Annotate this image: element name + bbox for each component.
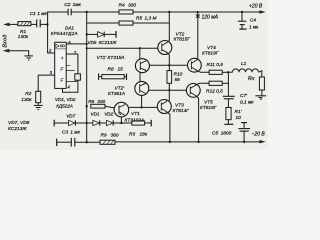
wire node N to R3' — [121, 122, 131, 124]
wire bus to VT2 base — [87, 47, 159, 49]
bottom rail wire — [115, 141, 260, 143]
node K junction — [140, 106, 142, 108]
node L junction (bus to R6) — [86, 105, 88, 107]
resistor R5 — [119, 21, 133, 25]
svg-text:L1: L1 — [241, 61, 247, 67]
wire VT4 collector up — [196, 12, 199, 60]
wire node S down to C7' — [227, 72, 229, 96]
resistor R12 — [209, 81, 222, 85]
wire R4 to node C — [133, 11, 169, 13]
node F junction (VD5 branch) — [86, 33, 88, 35]
svg-text:130к: 130к — [18, 34, 29, 40]
node R junction (C5) — [243, 141, 245, 143]
svg-text:+20 В: +20 В — [249, 3, 263, 9]
capacitor C7' — [223, 96, 235, 99]
resistor R9 — [100, 140, 115, 144]
svg-text:VD7, VD8: VD7, VD8 — [8, 120, 30, 126]
resistor R11 — [209, 70, 222, 74]
svg-text:VT4: VT4 — [207, 45, 216, 51]
svg-text:VT5: VT5 — [204, 100, 213, 106]
svg-text:R6: R6 — [88, 99, 94, 105]
wire VT4 emitter to R11 — [197, 71, 209, 73]
wire VT1' collector — [139, 48, 141, 59]
wire VD1 to VD2 — [100, 122, 107, 124]
op-amp triangle+inf symbol — [55, 44, 66, 49]
svg-text:С4: С4 — [250, 17, 256, 22]
svg-text:С2: С2 — [64, 2, 70, 8]
svg-text:VT2′: VT2′ — [115, 86, 126, 92]
wire C7' to R1' — [227, 99, 229, 108]
svg-text:Вход: Вход — [2, 34, 8, 47]
correction network wire — [63, 54, 78, 92]
wire VT3 collector down to rail — [167, 112, 170, 142]
wire +20V rail — [169, 11, 260, 13]
wire VT2' to node J — [148, 89, 169, 91]
wire VT5 collector down to rail — [196, 96, 199, 142]
wire C3 to bus — [75, 141, 100, 143]
correction cap box — [75, 74, 81, 80]
svg-text:R12 0,5: R12 0,5 — [206, 88, 223, 94]
wire R3' to T-bar — [145, 122, 151, 124]
capacitor C2 — [68, 9, 71, 16]
wire VT1' emitter to node I — [149, 64, 169, 66]
svg-text:0,1 мк: 0,1 мк — [240, 99, 254, 105]
resistor R8 (inter-channel) — [99, 73, 127, 80]
svg-text:КТ818Г: КТ818Г — [200, 105, 217, 111]
node S junction — [227, 71, 229, 73]
wire VT1 collector to VT3 base — [129, 106, 158, 108]
diode VD5 — [98, 31, 116, 38]
wire VT1'-VT2' link — [139, 72, 141, 82]
pin stubs right — [66, 65, 78, 81]
svg-text:VT3: VT3 — [175, 102, 184, 108]
wire C5 top — [243, 123, 245, 129]
transistor VT2' — [135, 81, 149, 95]
svg-text:VD5: VD5 — [88, 40, 97, 45]
svg-text:VT2: VT2 — [176, 31, 185, 37]
svg-text:R3: R3 — [129, 131, 135, 137]
svg-text:R2: R2 — [25, 91, 31, 97]
node I junction — [168, 64, 170, 66]
node D junction (VT4 collector) — [197, 11, 199, 13]
resistor Rн — [259, 77, 264, 90]
wire C2 to bus node B — [71, 11, 87, 13]
wire pin2 from node A — [48, 24, 55, 53]
wire R1' to T-bar — [227, 120, 229, 124]
resistor R10 — [167, 71, 172, 84]
svg-text:10: 10 — [236, 115, 242, 121]
svg-text:VT1′ КТ315А: VT1′ КТ315А — [97, 55, 125, 61]
wire VT5 base — [169, 89, 186, 91]
wire VD2 to node N — [113, 122, 121, 124]
wire R11 to node S — [222, 71, 228, 73]
wire to C3 — [57, 141, 72, 143]
wire VT2' collector down — [141, 95, 143, 108]
svg-text:Rн: Rн — [248, 76, 255, 82]
wire R12 to C7' chain — [222, 82, 228, 84]
label 120 мА — [196, 14, 200, 19]
svg-text:1 мк: 1 мк — [70, 130, 80, 136]
wire VT1 emitter down — [120, 117, 122, 123]
svg-text:КТ819Г: КТ819Г — [202, 51, 219, 57]
wire L1 to Rn — [259, 71, 262, 77]
node Q junction (VT5) — [197, 141, 199, 143]
ground (output) — [255, 96, 266, 100]
diode VD2 — [106, 120, 113, 125]
svg-text:1мк: 1мк — [73, 2, 82, 8]
svg-text:С3: С3 — [62, 130, 68, 136]
ground (R2) — [34, 103, 43, 110]
inductor L1 — [233, 69, 259, 72]
node H junction (VT1' collector) — [139, 47, 141, 49]
ground (input) — [24, 56, 33, 60]
svg-text:1800: 1800 — [221, 130, 232, 136]
svg-text:−20 В: −20 В — [252, 132, 266, 138]
svg-text:130к: 130к — [21, 97, 32, 103]
transistor VT5 — [186, 84, 200, 98]
svg-text:R5: R5 — [136, 16, 142, 22]
svg-text:18к: 18к — [140, 131, 148, 137]
wire C5 to rail — [243, 131, 245, 142]
capacitor C3 — [71, 138, 75, 147]
terminal T-bar (R1' bottom) — [224, 123, 233, 125]
pin 7 stub — [66, 53, 78, 55]
wire VT2 emitter down — [168, 53, 170, 71]
transistor VT3 — [157, 100, 171, 114]
terminal T-bar (C3 line left) — [56, 139, 58, 146]
node C junction — [168, 11, 170, 13]
wire C1 to node A — [40, 23, 47, 25]
svg-text:С7′: С7′ — [240, 93, 248, 99]
wire VD7 to bus — [75, 122, 93, 124]
+20V terminal arrow — [259, 10, 265, 13]
svg-text:1 мк: 1 мк — [249, 25, 259, 30]
svg-text:VT1: VT1 — [131, 111, 140, 117]
node G2 junction (bus to VT2 base line) — [86, 47, 88, 49]
capacitor C4 — [238, 12, 247, 29]
transistor VT2 — [158, 41, 172, 55]
resistor R3' — [132, 121, 145, 125]
svg-text:КС213Ж: КС213Ж — [99, 40, 118, 45]
svg-text:R1′: R1′ — [235, 109, 243, 115]
svg-text:R9: R9 — [101, 132, 107, 138]
svg-text:360: 360 — [111, 132, 119, 138]
wire VT5 emitter to R12 — [196, 83, 209, 85]
node B junction — [86, 11, 88, 13]
svg-text:VD1: VD1 — [91, 111, 100, 116]
svg-text:1 мк: 1 мк — [37, 11, 47, 17]
resistor R6 — [91, 104, 105, 108]
wire R2 to pin3 — [38, 75, 55, 91]
resistor R2 — [36, 91, 41, 102]
wire to VD7 — [54, 122, 68, 124]
node M junction — [86, 122, 88, 124]
capacitor C5 — [238, 129, 250, 132]
wire R10 to VT3 emitter — [168, 83, 170, 101]
transistor VT1 — [114, 102, 129, 117]
-20V terminal arrow — [259, 140, 265, 143]
svg-text:VD2: VD2 — [104, 111, 113, 116]
svg-text:КТ814Г: КТ814Г — [173, 108, 190, 114]
wire Rн to ground — [261, 90, 263, 95]
svg-text:КД522А: КД522А — [56, 103, 73, 108]
node G junction (output to bus) — [86, 43, 88, 45]
resistor R1 — [18, 22, 31, 26]
wire VT4 base — [169, 64, 188, 66]
svg-text:R8: R8 — [108, 66, 114, 72]
svg-text:КР544УД2А: КР544УД2А — [51, 31, 78, 36]
wire R5 to VT2 collector line — [133, 22, 169, 24]
transistor VT4 — [188, 58, 202, 72]
svg-text:С1: С1 — [30, 11, 36, 17]
svg-text:КТ361А: КТ361А — [108, 91, 125, 97]
wire R5 branch — [87, 22, 119, 24]
resistor R4 — [119, 10, 133, 14]
svg-text:КТ815Г: КТ815Г — [174, 37, 191, 43]
wire to VD5 — [87, 33, 98, 35]
node P junction (VT3) — [169, 141, 171, 143]
transistor VT1' — [135, 59, 149, 73]
wire node S to L1 — [228, 71, 232, 73]
svg-text:R4: R4 — [119, 2, 125, 8]
node O junction — [86, 141, 88, 143]
diode VD7 — [69, 120, 76, 125]
diode VD1 — [93, 120, 100, 125]
wire R1 to C1 — [31, 23, 37, 25]
svg-text:R11 0,5: R11 0,5 — [207, 62, 224, 68]
node J junction — [168, 89, 170, 91]
svg-text:КС213Ж: КС213Ж — [8, 126, 27, 132]
pin glyphs inside box — [61, 57, 64, 83]
svg-text:VD1, VD2: VD1, VD2 — [55, 97, 76, 102]
wire R6 to VT1 base — [105, 106, 115, 108]
capacitor C1 — [37, 19, 41, 27]
terminal T-bar (diode line left) — [53, 120, 55, 127]
svg-text:120 мА: 120 мА — [202, 15, 219, 21]
svg-text:330: 330 — [97, 99, 105, 105]
wire node A up to C2 line — [48, 12, 69, 24]
node E junction (C4) — [241, 11, 243, 13]
svg-text:R1: R1 — [20, 29, 26, 35]
wire VT2 collector up — [168, 12, 170, 42]
resistor R1' — [226, 108, 231, 120]
svg-text:R10: R10 — [174, 72, 183, 78]
svg-text:1,3 М: 1,3 М — [145, 16, 157, 22]
node A junction — [46, 23, 48, 25]
svg-text:56: 56 — [175, 77, 181, 83]
wire top rail B to R4 — [87, 11, 119, 13]
pin 6 output wire — [66, 43, 87, 45]
terminal T-bar (C5 top) — [241, 122, 247, 124]
terminal T-bar (R3' right) — [150, 120, 152, 127]
wire input lower (shield) — [3, 49, 29, 56]
svg-text:300: 300 — [128, 2, 136, 8]
op-amp DA1 box — [55, 42, 66, 88]
node N junction — [120, 122, 122, 124]
svg-text:С5: С5 — [212, 130, 218, 136]
vertical feedback bus — [86, 12, 88, 142]
svg-text:15: 15 — [118, 66, 124, 72]
svg-text:VD7: VD7 — [66, 113, 75, 118]
input terminal arrow — [3, 23, 18, 27]
